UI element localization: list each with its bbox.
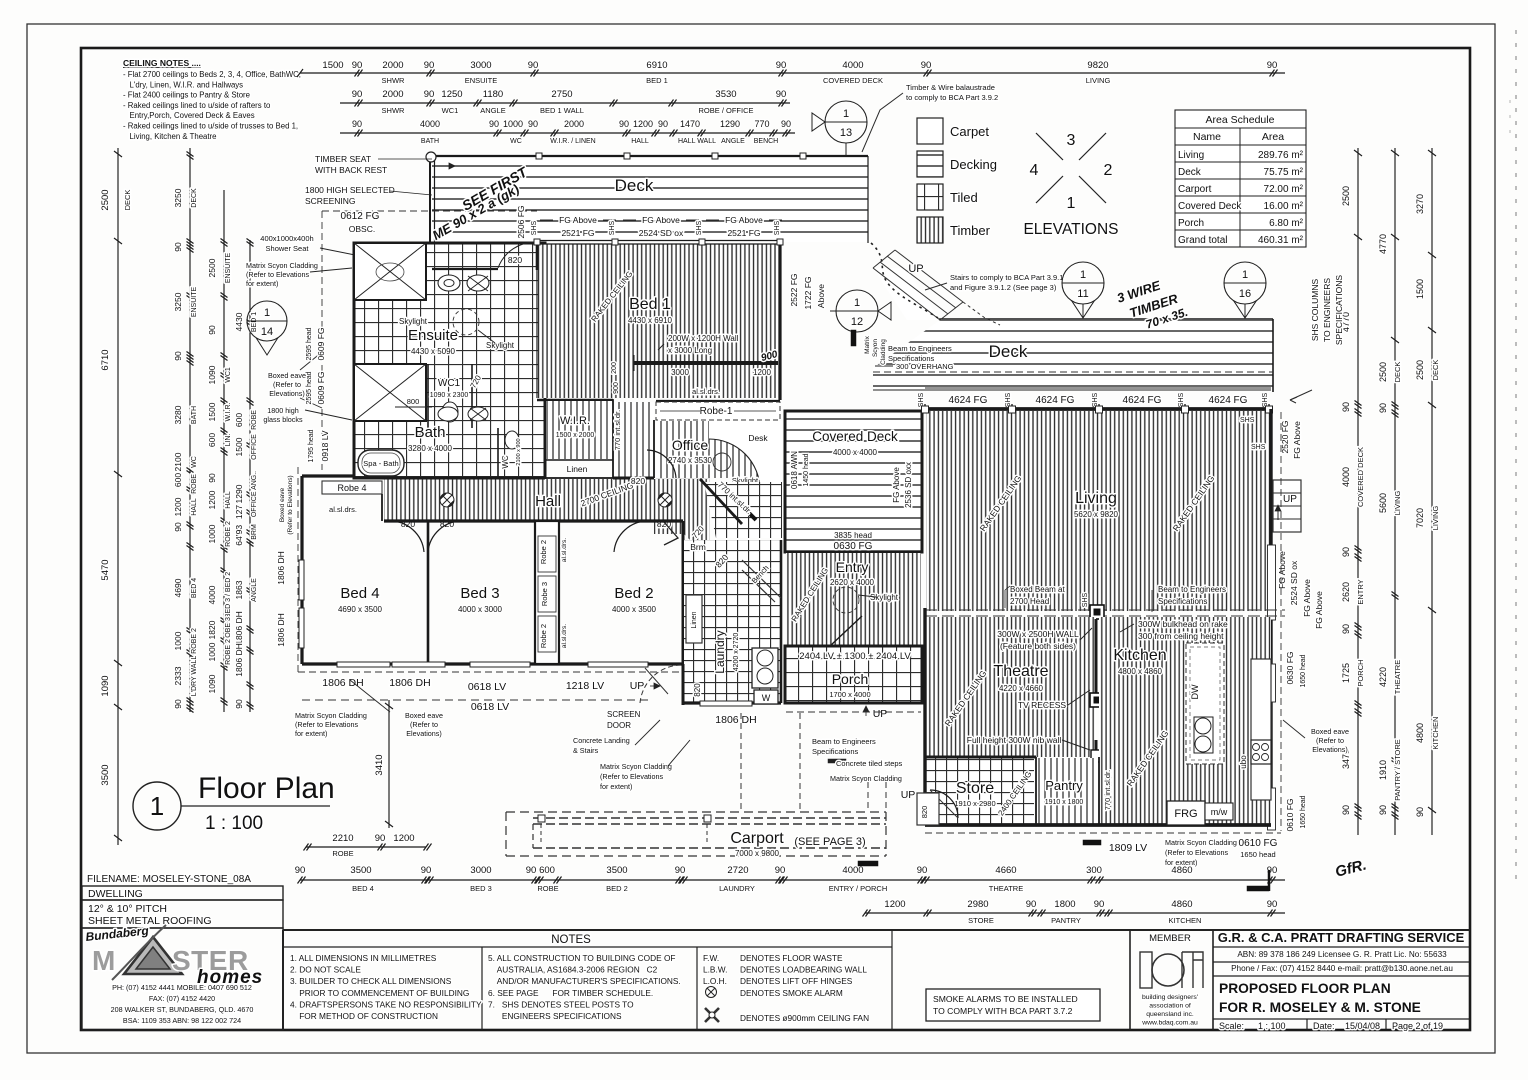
svg-text:90: 90 bbox=[375, 833, 386, 844]
svg-text:PORCH: PORCH bbox=[1356, 659, 1365, 686]
svg-text:HALL: HALL bbox=[191, 498, 198, 516]
svg-text:queensland inc.: queensland inc. bbox=[1146, 1011, 1194, 1018]
frg box bbox=[1167, 801, 1205, 825]
svg-text:Pantry: Pantry bbox=[1045, 778, 1083, 793]
bed1 bottom wall bbox=[537, 399, 613, 401]
svg-text:90: 90 bbox=[1378, 805, 1388, 815]
detail circle 16 bbox=[1224, 262, 1266, 304]
svg-text:4220: 4220 bbox=[1378, 667, 1388, 687]
svg-text:M: M bbox=[92, 945, 115, 976]
svg-text:FG Above: FG Above bbox=[725, 215, 763, 225]
svg-text:BED 2: BED 2 bbox=[606, 884, 628, 893]
svg-text:1500: 1500 bbox=[1415, 279, 1425, 299]
bottom dimension chain robe row bbox=[306, 846, 426, 848]
svg-text:1000: 1000 bbox=[503, 119, 523, 129]
svg-text:al.sl.drs.: al.sl.drs. bbox=[561, 538, 568, 562]
deck dashed eave bbox=[873, 371, 1273, 373]
svg-text:Bed 2: Bed 2 bbox=[614, 585, 653, 602]
svg-text:SHS: SHS bbox=[1240, 417, 1255, 424]
windows left wall bed4 bbox=[299, 560, 304, 600]
legend tiled bbox=[917, 184, 943, 210]
svg-text:1090 x 2300: 1090 x 2300 bbox=[430, 392, 469, 399]
svg-text:90: 90 bbox=[776, 60, 787, 71]
bath tiled floor bbox=[355, 364, 545, 478]
svg-text:1450 head: 1450 head bbox=[803, 453, 810, 486]
svg-text:2500: 2500 bbox=[1415, 360, 1425, 380]
smoke alarms box bbox=[926, 989, 1100, 1021]
feature wall bbox=[1095, 619, 1098, 700]
svg-text:ROBE: ROBE bbox=[537, 884, 558, 893]
svg-text:200W x 1200H Wall: 200W x 1200H Wall bbox=[668, 334, 739, 343]
svg-text:OBSC.: OBSC. bbox=[349, 224, 375, 234]
svg-text:BED 4: BED 4 bbox=[191, 578, 198, 598]
svg-text:Tiled: Tiled bbox=[950, 190, 978, 205]
svg-text:1500: 1500 bbox=[234, 437, 244, 456]
svg-text:4000: 4000 bbox=[1341, 467, 1351, 487]
svg-text:Robe 2: Robe 2 bbox=[539, 540, 548, 564]
svg-text:BATH: BATH bbox=[191, 406, 198, 424]
svg-text:1180: 1180 bbox=[483, 89, 503, 100]
living top wall bbox=[925, 407, 1271, 411]
svg-text:208 WALKER ST, BUNDABERG, QLD.: 208 WALKER ST, BUNDABERG, QLD. 4670 bbox=[111, 1005, 254, 1014]
svg-text:0918 LV: 0918 LV bbox=[320, 430, 330, 461]
svg-text:200: 200 bbox=[611, 362, 618, 374]
svg-text:4860: 4860 bbox=[1171, 899, 1192, 910]
svg-text:FAX: (07) 4152 4420: FAX: (07) 4152 4420 bbox=[149, 994, 215, 1003]
svg-text:SHS: SHS bbox=[609, 220, 616, 235]
svg-text:90: 90 bbox=[295, 865, 306, 876]
svg-text:90: 90 bbox=[776, 89, 787, 100]
svg-text:770: 770 bbox=[754, 119, 769, 129]
bdaq logo bbox=[1140, 952, 1152, 988]
svg-text:BATH: BATH bbox=[421, 138, 439, 145]
svg-text:Boxed eave: Boxed eave bbox=[1311, 727, 1349, 736]
svg-text:4200 x 2720: 4200 x 2720 bbox=[733, 633, 740, 672]
svg-text:3500: 3500 bbox=[606, 865, 627, 876]
svg-text:(Feature both sides): (Feature both sides) bbox=[1000, 641, 1076, 651]
svg-text:ENSUITE: ENSUITE bbox=[465, 76, 498, 85]
svg-text:600: 600 bbox=[539, 865, 555, 876]
detail circle 12 bbox=[836, 290, 878, 332]
svg-text:THEATRE: THEATRE bbox=[1393, 660, 1402, 694]
mw box bbox=[1205, 803, 1233, 820]
svg-text:2524 SD ox: 2524 SD ox bbox=[1289, 560, 1299, 605]
svg-text:6910: 6910 bbox=[646, 60, 667, 71]
bed2 right angled walls bbox=[682, 521, 685, 664]
svg-text:2720: 2720 bbox=[727, 865, 748, 876]
svg-text:2620: 2620 bbox=[1341, 582, 1351, 602]
svg-text:64: 64 bbox=[234, 536, 244, 546]
svg-text:1500 x 2000: 1500 x 2000 bbox=[556, 432, 595, 439]
svg-text:SCREENING: SCREENING bbox=[305, 196, 356, 206]
kitchen island bbox=[1186, 643, 1224, 764]
svg-text:1200: 1200 bbox=[633, 119, 653, 129]
svg-text:3. BUILDER TO CHECK ALL DIMENS: 3. BUILDER TO CHECK ALL DIMENSIONS bbox=[290, 976, 452, 986]
svg-text:ENTRY: ENTRY bbox=[1356, 579, 1365, 604]
svg-text:ROBE 2: ROBE 2 bbox=[225, 521, 232, 547]
svg-text:L.B.W.: L.B.W. bbox=[703, 965, 727, 975]
svg-text:Area: Area bbox=[1262, 131, 1284, 143]
svg-text:HALL: HALL bbox=[631, 138, 649, 145]
stove bbox=[1251, 740, 1271, 764]
svg-text:DOOR: DOOR bbox=[607, 721, 631, 730]
svg-text:90: 90 bbox=[352, 119, 362, 129]
washer W bbox=[754, 690, 778, 704]
svg-text:0618 AWN: 0618 AWN bbox=[790, 451, 799, 489]
svg-text:Entry,Porch, Covered Deck & Ea: Entry,Porch, Covered Deck & Eaves bbox=[123, 111, 255, 120]
svg-text:to comply to BCA Part 3.9.2: to comply to BCA Part 3.9.2 bbox=[906, 93, 998, 102]
bed4 robe bbox=[322, 481, 382, 494]
svg-text:OFFICE ANG..: OFFICE ANG.. bbox=[251, 471, 258, 517]
svg-text:SCREEN: SCREEN bbox=[607, 710, 641, 719]
svg-text:ELEVATIONS: ELEVATIONS bbox=[1023, 221, 1118, 238]
office walls bbox=[653, 420, 655, 478]
right wall window breaks bbox=[1268, 545, 1276, 620]
svg-text:1: 1 bbox=[1080, 269, 1086, 281]
svg-text:600: 600 bbox=[207, 433, 217, 447]
svg-text:al.sl.drs.: al.sl.drs. bbox=[329, 505, 357, 514]
svg-text:Carport: Carport bbox=[1178, 184, 1212, 195]
svg-text:ROBE: ROBE bbox=[251, 410, 258, 430]
svg-text:4430: 4430 bbox=[234, 312, 244, 331]
svg-text:Ensuite: Ensuite bbox=[408, 327, 458, 344]
svg-text:13: 13 bbox=[840, 127, 852, 139]
svg-text:Linen: Linen bbox=[691, 611, 698, 628]
svg-text:BED 1 WALL: BED 1 WALL bbox=[540, 106, 584, 115]
svg-text:Cladding: Cladding bbox=[880, 339, 887, 365]
svg-text:75.75 m²: 75.75 m² bbox=[1264, 167, 1304, 178]
svg-text:1722 FG: 1722 FG bbox=[803, 276, 813, 309]
svg-text:2740 x 3530: 2740 x 3530 bbox=[668, 456, 713, 465]
svg-text:90: 90 bbox=[1094, 899, 1105, 910]
svg-text:WC: WC bbox=[501, 455, 510, 469]
svg-text:2500: 2500 bbox=[1378, 362, 1388, 382]
svg-text:Desk: Desk bbox=[748, 433, 768, 443]
svg-text:1290: 1290 bbox=[234, 484, 244, 503]
svg-text:90: 90 bbox=[1026, 899, 1037, 910]
kitchen floor bbox=[1099, 617, 1271, 825]
svg-text:UP: UP bbox=[1283, 494, 1297, 505]
svg-text:FG Above: FG Above bbox=[1314, 591, 1324, 629]
svg-text:Carpet: Carpet bbox=[950, 124, 989, 139]
svg-text:(Refer to Elevations: (Refer to Elevations bbox=[600, 772, 664, 781]
svg-text:ROBE / OFFICE: ROBE / OFFICE bbox=[698, 106, 753, 115]
svg-text:770 int.sl.dr.: 770 int.sl.dr. bbox=[613, 410, 622, 450]
svg-text:2521 FG: 2521 FG bbox=[727, 228, 760, 238]
wc1 room bbox=[427, 364, 429, 428]
svg-text:BRM: BRM bbox=[251, 524, 258, 540]
svg-text:2536 SD oxx: 2536 SD oxx bbox=[904, 462, 913, 508]
svg-text:Above: Above bbox=[816, 284, 826, 308]
svg-text:90: 90 bbox=[1415, 807, 1425, 817]
svg-text:STORE: STORE bbox=[968, 916, 994, 925]
svg-text:1250: 1250 bbox=[441, 89, 462, 100]
master homes logo box bbox=[82, 928, 283, 1030]
store floor bbox=[926, 758, 1034, 824]
svg-text:2500: 2500 bbox=[1341, 186, 1351, 206]
svg-text:FG Above: FG Above bbox=[1292, 421, 1302, 459]
up stairs right bbox=[1273, 480, 1301, 532]
svg-text:460.31 m²: 460.31 m² bbox=[1258, 235, 1304, 246]
svg-text:Matrix: Matrix bbox=[864, 335, 871, 353]
svg-text:Theatre: Theatre bbox=[993, 663, 1048, 680]
4624 FG row bbox=[925, 387, 1271, 389]
beam spec black mark bbox=[858, 861, 878, 866]
svg-text:3: 3 bbox=[1067, 132, 1076, 149]
covered deck floor bbox=[786, 412, 921, 551]
svg-text:SHS: SHS bbox=[1082, 592, 1089, 607]
svg-text:WC1: WC1 bbox=[442, 106, 459, 115]
svg-text:2210: 2210 bbox=[332, 833, 353, 844]
svg-text:(Refer to Elevations: (Refer to Elevations bbox=[295, 720, 359, 729]
svg-text:Specifications: Specifications bbox=[1158, 597, 1207, 606]
svg-text:2100: 2100 bbox=[173, 452, 183, 471]
svg-text:DENOTES SMOKE ALARM: DENOTES SMOKE ALARM bbox=[740, 988, 843, 998]
vertical dim 3410 bbox=[388, 700, 390, 828]
svg-text:NOTES: NOTES bbox=[551, 934, 591, 946]
svg-text:1470: 1470 bbox=[680, 119, 700, 129]
svg-text:4770: 4770 bbox=[1378, 234, 1388, 254]
hall extension under office bbox=[654, 479, 710, 534]
svg-text:Laundry: Laundry bbox=[713, 630, 727, 673]
svg-text:1200: 1200 bbox=[884, 899, 905, 910]
detail circle 13 bbox=[825, 101, 867, 143]
svg-text:Matrix Scyon Cladding: Matrix Scyon Cladding bbox=[830, 774, 902, 783]
svg-text:72.00 m²: 72.00 m² bbox=[1264, 184, 1304, 195]
svg-text:Bed 4: Bed 4 bbox=[340, 585, 379, 602]
svg-text:4800 x 4860: 4800 x 4860 bbox=[1118, 667, 1163, 676]
svg-text:DW: DW bbox=[1190, 684, 1200, 699]
spa bath bbox=[358, 450, 404, 476]
svg-text:DENOTES LIFT OFF HINGES: DENOTES LIFT OFF HINGES bbox=[740, 976, 853, 986]
entry door bbox=[830, 616, 862, 646]
carport dashed outline bbox=[506, 811, 886, 813]
hall floor bbox=[384, 479, 684, 521]
svg-text:9820: 9820 bbox=[1087, 60, 1108, 71]
svg-text:HALL WALL: HALL WALL bbox=[678, 138, 716, 145]
top dimension chain row 3 bbox=[340, 132, 795, 134]
right dimension column C bbox=[1431, 148, 1433, 835]
svg-text:90: 90 bbox=[1341, 547, 1351, 557]
svg-text:COVERED DECK: COVERED DECK bbox=[823, 76, 883, 85]
nib wall bbox=[1095, 740, 1098, 757]
svg-text:14: 14 bbox=[261, 326, 273, 338]
svg-text:90: 90 bbox=[352, 89, 363, 100]
svg-text:Skylight: Skylight bbox=[870, 593, 899, 602]
svg-text:1700 x 4000: 1700 x 4000 bbox=[829, 690, 870, 699]
svg-text:4: 4 bbox=[1030, 162, 1039, 179]
deck posts top edge bbox=[536, 153, 542, 159]
office door arc bbox=[709, 439, 760, 490]
svg-text:TO ENGINEERS: TO ENGINEERS bbox=[1322, 278, 1332, 342]
member column bbox=[1129, 930, 1131, 1030]
svg-text:Phone / Fax: (07) 4152 8440 e-: Phone / Fax: (07) 4152 8440 e-mail: prat… bbox=[1231, 964, 1453, 973]
svg-text:Deck: Deck bbox=[1178, 167, 1202, 178]
svg-text:2000: 2000 bbox=[564, 119, 584, 129]
svg-text:600: 600 bbox=[234, 413, 244, 427]
bed 1 walls bbox=[537, 240, 781, 242]
smoke alarms hall bbox=[440, 493, 454, 507]
svg-text:1. ALL DIMENSIONS IN MILLIMETR: 1. ALL DIMENSIONS IN MILLIMETRES bbox=[290, 953, 437, 963]
svg-text:12° & 10° PITCH: 12° & 10° PITCH bbox=[88, 903, 167, 915]
svg-text:DECK: DECK bbox=[191, 188, 198, 208]
covered deck outline bbox=[785, 411, 922, 552]
svg-text:Boxed eave: Boxed eave bbox=[405, 711, 443, 720]
svg-text:Kitchen: Kitchen bbox=[1113, 647, 1166, 664]
svg-text:4000 x 3000: 4000 x 3000 bbox=[458, 605, 503, 614]
svg-text:1725: 1725 bbox=[1341, 663, 1351, 683]
svg-text:90: 90 bbox=[526, 865, 537, 876]
svg-text:ENTRY / PORCH: ENTRY / PORCH bbox=[829, 884, 887, 893]
svg-text:2500: 2500 bbox=[207, 258, 217, 277]
svg-text:3530: 3530 bbox=[715, 89, 736, 100]
svg-text:Living, Kitchen & Theatre: Living, Kitchen & Theatre bbox=[123, 132, 216, 141]
ceiling fan symbol bbox=[705, 1008, 719, 1022]
svg-text:Name: Name bbox=[1193, 131, 1221, 143]
svg-text:0610 FG: 0610 FG bbox=[1285, 798, 1295, 831]
svg-text:1800 HIGH SELECTED: 1800 HIGH SELECTED bbox=[305, 185, 395, 195]
svg-text:90: 90 bbox=[173, 242, 183, 252]
svg-text:5470: 5470 bbox=[100, 559, 111, 580]
svg-text:90: 90 bbox=[207, 325, 217, 335]
svg-text:1806 DH: 1806 DH bbox=[276, 551, 286, 585]
svg-text:1806 DH: 1806 DH bbox=[234, 611, 244, 645]
svg-text:1: 1 bbox=[150, 791, 164, 821]
porch floor bbox=[786, 646, 921, 703]
svg-text:LIVING: LIVING bbox=[1431, 506, 1440, 531]
svg-text:90: 90 bbox=[1378, 403, 1388, 413]
svg-text:F.W.: F.W. bbox=[703, 953, 719, 963]
svg-text:0630 FG: 0630 FG bbox=[834, 541, 873, 552]
svg-text:for extent): for extent) bbox=[1165, 858, 1197, 867]
svg-text:820: 820 bbox=[631, 476, 645, 486]
svg-text:900: 900 bbox=[613, 382, 620, 394]
deck right bottom edge bbox=[873, 389, 1271, 391]
svg-text:6. SEE PAGE FOR TIMBER SC: 6. SEE PAGE FOR TIMBER SCHEDULE. bbox=[488, 988, 653, 998]
svg-text:(Refer to Elevations): (Refer to Elevations) bbox=[287, 475, 294, 534]
svg-text:1090: 1090 bbox=[207, 674, 217, 693]
linen bbox=[545, 459, 613, 461]
svg-text:0630 FG: 0630 FG bbox=[1285, 651, 1295, 684]
hall door arcs bbox=[390, 521, 424, 552]
svg-text:W.I.R.: W.I.R. bbox=[225, 402, 232, 421]
svg-text:FG Above: FG Above bbox=[892, 467, 901, 503]
bath shower box bbox=[354, 364, 426, 421]
shs post bulkhead bbox=[1090, 605, 1104, 619]
svg-text:Spa - Bath: Spa - Bath bbox=[363, 459, 398, 468]
svg-text:KITCHEN: KITCHEN bbox=[1431, 717, 1440, 750]
svg-text:ubo: ubo bbox=[1239, 755, 1248, 769]
theatre floor bbox=[926, 617, 1096, 757]
svg-text:al.sl.drs.: al.sl.drs. bbox=[692, 387, 720, 396]
svg-text:4000 x 4000: 4000 x 4000 bbox=[833, 448, 878, 457]
svg-text:SHS: SHS bbox=[696, 220, 703, 235]
svg-text:TO COMPLY WITH BCA PART 3.7.2: TO COMPLY WITH BCA PART 3.7.2 bbox=[933, 1006, 1073, 1016]
dwelling box bbox=[82, 886, 283, 900]
svg-text:90: 90 bbox=[1267, 899, 1278, 910]
stairs to deck bbox=[873, 268, 940, 320]
svg-text:SHS: SHS bbox=[1178, 392, 1185, 407]
svg-text:Robe 2: Robe 2 bbox=[539, 624, 548, 648]
svg-text:1: 1 bbox=[264, 307, 270, 319]
svg-text:0609 FG: 0609 FG bbox=[316, 327, 326, 360]
svg-text:4000: 4000 bbox=[842, 865, 863, 876]
ensuite vanity basins bbox=[432, 268, 498, 270]
svg-text:WC1: WC1 bbox=[438, 378, 461, 389]
detail circle 14 bbox=[247, 301, 287, 341]
svg-text:Scale:: Scale: bbox=[1219, 1021, 1244, 1031]
bottom dimension chain row B bbox=[865, 912, 1285, 914]
svg-text:90: 90 bbox=[424, 89, 435, 100]
svg-text:300W x 2500H WALL: 300W x 2500H WALL bbox=[997, 629, 1079, 639]
ensuite shower box bbox=[354, 243, 426, 300]
laundry outline bbox=[682, 664, 685, 705]
svg-text:4000: 4000 bbox=[842, 60, 863, 71]
bed1 feature wall bbox=[634, 361, 778, 365]
svg-text:SMOKE ALARMS TO BE INSTALLED: SMOKE ALARMS TO BE INSTALLED bbox=[933, 994, 1078, 1004]
svg-text:1910 x 2980: 1910 x 2980 bbox=[954, 799, 995, 808]
laundry tiled floor bbox=[684, 540, 781, 703]
right dimension column A bbox=[1357, 148, 1359, 835]
svg-text:Page 2 of 19: Page 2 of 19 bbox=[1392, 1021, 1443, 1031]
deck top (upper) hatch bbox=[432, 157, 868, 268]
svg-text:90: 90 bbox=[1341, 624, 1351, 634]
svg-text:AND/OR MANUFACTURER'S SPECIFIC: AND/OR MANUFACTURER'S SPECIFICATIONS. bbox=[488, 976, 681, 986]
svg-text:90: 90 bbox=[528, 60, 539, 71]
svg-text:2520 FG: 2520 FG bbox=[1280, 420, 1290, 453]
svg-text:6710: 6710 bbox=[100, 349, 111, 370]
bulkhead dashed line bbox=[925, 609, 1285, 611]
svg-text:Grand total: Grand total bbox=[1178, 235, 1227, 246]
svg-text:2700 Head: 2700 Head bbox=[1010, 597, 1049, 606]
corridor pocket door bar bbox=[605, 431, 609, 458]
svg-text:L'dry, Linen, W.I.R. and Hallw: L'dry, Linen, W.I.R. and Hallways bbox=[123, 80, 243, 89]
svg-text:4000 x 3500: 4000 x 3500 bbox=[612, 605, 657, 614]
svg-text:4000: 4000 bbox=[420, 119, 440, 129]
svg-text:90: 90 bbox=[1267, 60, 1278, 71]
svg-text:THEATRE: THEATRE bbox=[989, 884, 1023, 893]
svg-text:3500: 3500 bbox=[100, 764, 111, 785]
wir floor bbox=[546, 401, 612, 459]
svg-text:3280: 3280 bbox=[173, 405, 183, 424]
svg-text:820: 820 bbox=[693, 683, 702, 697]
svg-text:TV RECESS: TV RECESS bbox=[1018, 700, 1067, 710]
svg-text:2100 x 900: 2100 x 900 bbox=[516, 438, 522, 465]
svg-text:FOR METHOD OF CONSTRUCTION: FOR METHOD OF CONSTRUCTION bbox=[290, 1011, 438, 1021]
svg-text:3250: 3250 bbox=[173, 188, 183, 207]
svg-text:7000 x 9800: 7000 x 9800 bbox=[735, 849, 780, 858]
timber seat arrow bbox=[437, 165, 455, 167]
robe strip between bed3 bed2 bbox=[535, 521, 559, 664]
svg-text:DWELLING: DWELLING bbox=[88, 888, 143, 900]
svg-text:1800: 1800 bbox=[1054, 899, 1075, 910]
svg-text:Carport: Carport bbox=[730, 830, 784, 847]
deck right floor bbox=[873, 320, 1273, 390]
svg-text:SHS: SHS bbox=[531, 220, 538, 235]
svg-text:0618 LV: 0618 LV bbox=[471, 701, 509, 713]
svg-text:G.R. & C.A. PRATT DRAFTING SER: G.R. & C.A. PRATT DRAFTING SERVICE bbox=[1218, 930, 1465, 945]
bedroom block walls bbox=[302, 474, 354, 477]
svg-text:ABN: 89 378 186 249 Licensee: ABN: 89 378 186 249 Licensee G. R. Pratt… bbox=[1237, 950, 1447, 959]
svg-text:SHWR: SHWR bbox=[382, 106, 405, 115]
svg-text:90: 90 bbox=[173, 699, 183, 709]
svg-text:UP: UP bbox=[908, 263, 923, 275]
svg-text:Boxed Beam at: Boxed Beam at bbox=[1010, 585, 1065, 594]
svg-text:2500: 2500 bbox=[100, 189, 111, 210]
legend timber bbox=[917, 217, 943, 243]
svg-text:WC1: WC1 bbox=[225, 367, 232, 383]
store door bbox=[930, 790, 958, 818]
